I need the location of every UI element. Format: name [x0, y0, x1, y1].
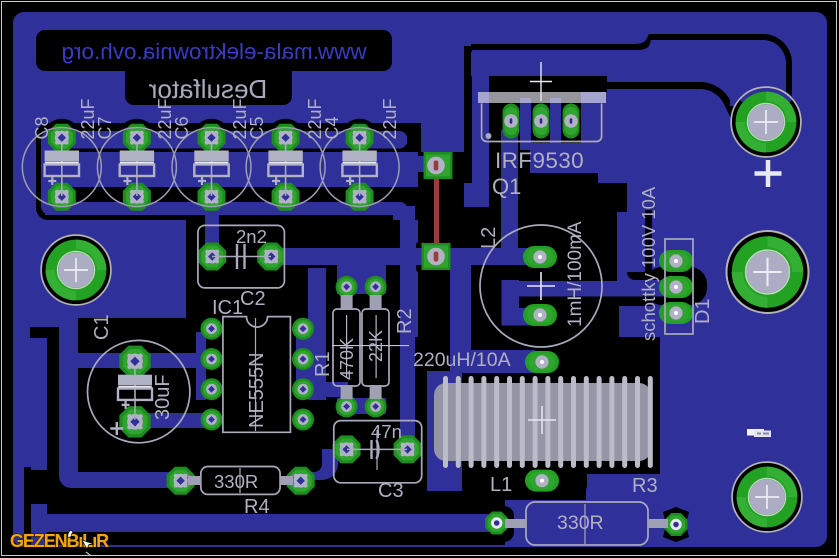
wire: T3 C1 top pad to IC1 pin2 — [76, 353, 212, 368]
node: R1 R2 isolation zone — [326, 262, 400, 420]
capacitor C4 pads — [346, 124, 374, 152]
resistor R4 outline — [201, 467, 280, 495]
inductor L1 body — [434, 383, 651, 461]
op-amp U1 IC1 origin line — [255, 318, 257, 431]
svg-text:IRF9530: IRF9530 — [495, 148, 584, 173]
transistor Q1 outline — [482, 104, 602, 142]
node: isolation left of via column — [410, 123, 428, 220]
capacitor C7 symbol — [120, 144, 154, 196]
svg-text:Q1: Q1 — [492, 174, 521, 199]
svg-text:R1: R1 — [312, 351, 334, 377]
capacitor C5 pads — [272, 124, 300, 152]
node: isolation around P+ band outer — [471, 34, 792, 102]
wire: IC1 pin6 to R1R2 bottom — [303, 382, 348, 397]
capacitor C1 circle — [88, 340, 190, 442]
svg-text:C3: C3 — [378, 480, 404, 502]
svg-text:330R: 330R — [214, 471, 258, 492]
transistor Q1 pin1 dot — [486, 133, 492, 139]
capacitor C5 circle — [246, 128, 325, 207]
svg-text:C4: C4 — [322, 116, 342, 139]
capacitor C8 pads — [48, 124, 76, 152]
wire: trace D bottom-trace to C3 right pad — [400, 206, 415, 456]
svg-text:1mH/100mA: 1mH/100mA — [565, 221, 586, 327]
resistor R4 pads — [167, 467, 195, 495]
wire: via2 wide trace down — [450, 256, 471, 366]
node: isolation around P+ band inner — [607, 82, 738, 119]
wire: Q1 strip between pads 1-2 — [520, 98, 531, 150]
node: isolation line left of T2 — [47, 327, 59, 545]
capacitor C2 outline — [198, 225, 285, 288]
resistor R2 pads — [365, 276, 387, 298]
resistor R3 lead stubs and origin — [505, 519, 526, 528]
svg-text:R4: R4 — [244, 496, 270, 518]
wire: R1 R2 top pads junction — [337, 265, 386, 294]
node: L1 isolation zone — [415, 337, 660, 500]
svg-text:IC1: IC1 — [212, 297, 243, 319]
wire: L2 bottom pad link vertical — [502, 280, 520, 326]
resistor R1 lead stubs — [341, 295, 353, 310]
wire: via column above V1 — [421, 46, 464, 152]
via V2 — [422, 243, 451, 270]
node: tiny white tag — [754, 431, 771, 438]
node: isolation right of R1R2 — [326, 206, 415, 262]
node: isolation around via V2 — [416, 240, 456, 274]
node: capacitor bank isolation band — [36, 123, 448, 220]
node: C3 R4 isolation zone — [160, 400, 432, 512]
svg-text:2n2: 2n2 — [236, 226, 267, 247]
node: C1 isolation zone — [78, 318, 196, 460]
node: Q1 isolation zone — [489, 72, 607, 212]
transistor Q1 tab — [478, 92, 606, 103]
resistor R3 outline — [526, 502, 648, 545]
op-amp U1 IC1 outline with notch — [223, 317, 291, 433]
svg-text:L2: L2 — [478, 227, 500, 249]
node: pad isolation bulges — [43, 119, 81, 157]
node: isolation left of T1 elbow — [24, 467, 31, 545]
transistor Q1 pads — [503, 104, 520, 139]
pad P+ terminal — [731, 86, 801, 157]
svg-text:330R: 330R — [557, 512, 604, 534]
node: isolation D1 link band — [556, 272, 652, 306]
capacitor C1 symbol — [118, 368, 152, 419]
node: C2 isolation zone — [186, 218, 326, 332]
capacitor C3 outline — [334, 421, 422, 483]
svg-text:47n: 47n — [371, 421, 402, 442]
op-amp U1 IC1 pads pins 1-4 — [201, 318, 223, 340]
wire: T2 Pleft down to R4 left pad — [59, 327, 181, 488]
svg-text:D1: D1 — [692, 298, 714, 324]
resistor R2 origin line — [375, 315, 377, 378]
svg-text:30uF: 30uF — [152, 374, 174, 420]
svg-text:22uF: 22uF — [380, 98, 400, 139]
svg-text:GEZENBıLıR: GEZENBıLıR — [10, 531, 109, 551]
inductor L2 origin cross — [527, 272, 555, 300]
resistor R1 outline — [333, 309, 360, 386]
node: isolation around via V1 — [416, 148, 471, 183]
wire: IC1 pins 6-7-8 tie — [296, 324, 310, 396]
wire: link to D1 middle pad — [502, 281, 668, 297]
wire: R1 R2 bottom pads junction — [337, 398, 386, 414]
node: isolation around red wire — [421, 160, 452, 250]
resistor R4 lead stubs and origin — [188, 476, 201, 485]
node: isolation right of D1 trace — [645, 210, 652, 278]
wire: caps bottom trace — [45, 202, 408, 220]
node: P- polarity mark — [747, 429, 764, 436]
capacitor C3 symbol — [347, 430, 407, 470]
wire: band B C2R to via2 to L2top — [271, 248, 543, 265]
wire: junction to L1 top pad — [450, 350, 535, 373]
transistor Q1 origin cross — [530, 62, 552, 101]
svg-text:220uH/10A: 220uH/10A — [413, 349, 511, 371]
wire: L2 bottom pad link horizontal — [505, 308, 545, 326]
wire: band under Q1 — [530, 148, 598, 173]
pad P-minus terminal — [732, 462, 802, 532]
node: isolation line left of Q1 — [464, 46, 472, 183]
diode D1 pads — [659, 250, 693, 272]
node: website label cutout — [36, 30, 392, 105]
node: isolation below coil left — [412, 488, 504, 512]
node: L1 origin cross — [528, 406, 556, 434]
svg-text:22K: 22K — [366, 330, 386, 362]
wire: Q1 strip between pads 2-3 — [550, 98, 561, 150]
svg-text:R2: R2 — [394, 308, 416, 334]
wire: trace Q1 area to D1 — [617, 212, 676, 296]
wire: via V1 entry from pour strip — [414, 156, 426, 172]
wire: caps middle pour strip — [41, 152, 418, 187]
capacitor C7 circle — [97, 128, 176, 207]
inductor L2 circle — [480, 225, 602, 347]
svg-text:470K: 470K — [337, 338, 357, 380]
node: P+ polarity mark — [755, 160, 782, 187]
capacitor C7 pads — [123, 124, 151, 152]
node: bottom-left isolation zone — [59, 435, 505, 545]
diode D1 outline — [665, 239, 693, 334]
wire: caps top trace — [41, 131, 407, 149]
node: isolation around L1 bottom pad — [497, 465, 587, 497]
svg-text:C1: C1 — [91, 314, 113, 340]
svg-text:C7: C7 — [95, 116, 115, 139]
node: isolation slot above T1 elbow — [29, 470, 47, 506]
node: isolation around R3 left pad — [480, 506, 514, 542]
wire: pour wedge right of Q1 — [598, 142, 619, 182]
inductor L2 pads — [523, 246, 557, 268]
capacitor C6 symbol — [194, 144, 228, 196]
wire: R2 top stub to band B — [369, 255, 385, 280]
capacitor C4 symbol — [342, 144, 376, 196]
wire: Q1 left pad strip down to band B — [501, 130, 518, 252]
pad P-left terminal — [41, 235, 111, 305]
node: L2 isolation zone — [418, 183, 629, 376]
pad P-mid terminal — [726, 231, 808, 313]
via V1 — [424, 152, 453, 179]
svg-text:C5: C5 — [247, 116, 267, 139]
node: IC1 isolation zone — [206, 305, 308, 458]
svg-text:R3: R3 — [632, 475, 658, 497]
capacitor C6 pads — [198, 124, 226, 152]
wire: notch black left of via column — [407, 123, 421, 152]
wire: C2L up to cap C6 pad — [205, 190, 219, 257]
svg-text:C2: C2 — [240, 288, 266, 310]
svg-text:C6: C6 — [172, 116, 192, 139]
svg-text:www.mala-elektrownia.ovh.org: www.mala-elektrownia.ovh.org — [61, 39, 367, 64]
capacitor C8 circle — [22, 128, 101, 207]
wire: wide band to P+ — [471, 52, 774, 106]
capacitor C5 symbol — [268, 144, 302, 196]
svg-text:NE555N: NE555N — [246, 352, 268, 428]
capacitor C1 pads — [119, 346, 150, 377]
wire: T4 C1 plus pad to IC1 pin4 — [135, 413, 212, 428]
capacitor C6 circle — [172, 128, 251, 207]
op-amp U1 IC1 pads pins 5-8 — [292, 409, 314, 431]
capacitor C3 pads — [333, 435, 361, 463]
resistor R2 outline — [362, 309, 389, 386]
node: isolation around R3 right pad — [663, 507, 689, 542]
wire: R4R to C3L link — [300, 449, 338, 480]
resistor R2 lead stubs — [370, 295, 382, 310]
capacitor C2 pads — [198, 243, 226, 271]
wire: T1 long bottom trace — [31, 504, 495, 532]
resistor R3 pads — [485, 512, 508, 535]
node: C1 plus mark — [110, 422, 123, 435]
svg-text:L1: L1 — [490, 474, 512, 496]
svg-text:C8: C8 — [32, 116, 52, 139]
resistor R1 origin line — [332, 315, 409, 378]
svg-text:schottky 100V 10A: schottky 100V 10A — [638, 186, 659, 341]
resistor R1 pads — [336, 276, 358, 298]
wire: red airwire via1 to via2 — [434, 165, 439, 257]
wire: caps rows left merge — [41, 131, 61, 215]
inductor L1 pads — [525, 351, 559, 373]
capacitor C4 circle — [320, 128, 399, 207]
wire: wide column left of coil — [427, 371, 462, 491]
node: zone under Q1 right — [530, 173, 598, 212]
capacitor C8 symbol — [45, 144, 79, 196]
capacitor C2 symbol — [212, 244, 271, 269]
